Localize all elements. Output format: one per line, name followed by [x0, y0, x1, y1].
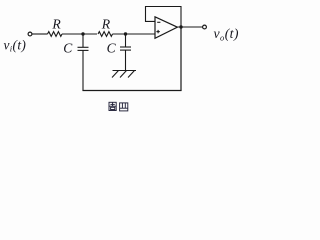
resistor R1 — [48, 32, 63, 37]
bottom return wire — [82, 90, 181, 92]
ground hatch 1 — [112, 71, 119, 78]
capacitor C2 bottom lead — [125, 50, 127, 70]
node B junction — [124, 32, 127, 35]
svg-text:R: R — [101, 17, 111, 32]
capacitor C1 top lead — [82, 34, 84, 47]
wire op-amp output — [177, 26, 202, 28]
svg-text:vi(t): vi(t) — [4, 37, 27, 53]
capacitor C1 bottom lead — [82, 50, 84, 91]
svg-text:C: C — [63, 41, 73, 56]
output terminal — [203, 25, 207, 29]
output node junction — [179, 25, 182, 28]
node A junction — [81, 32, 84, 35]
op-amp plus sign — [156, 31, 159, 33]
capacitor C2 plates — [120, 46, 131, 48]
feedback wire output to - input — [146, 7, 182, 28]
caption 四 glyph — [120, 103, 128, 111]
input terminal — [28, 32, 32, 36]
wire R1 to R2 — [62, 33, 97, 35]
resistor R2 — [98, 32, 113, 37]
capacitor C2 top lead — [125, 34, 127, 47]
capacitor C1 plates — [78, 46, 89, 48]
caption 圖 glyph — [109, 102, 116, 110]
svg-text:C: C — [107, 40, 117, 55]
wire output node down — [180, 27, 182, 91]
wire input to R1 — [32, 33, 47, 35]
svg-text:R: R — [51, 17, 61, 32]
wire R2 to op-amp + input — [113, 33, 156, 35]
op-amp minus sign — [157, 21, 160, 23]
svg-text:vo(t): vo(t) — [214, 26, 239, 42]
ground hatch 2 — [120, 71, 127, 78]
ground hatch 3 — [128, 71, 135, 78]
ground bar — [113, 70, 137, 72]
op-amp U1 triangle — [155, 17, 177, 39]
